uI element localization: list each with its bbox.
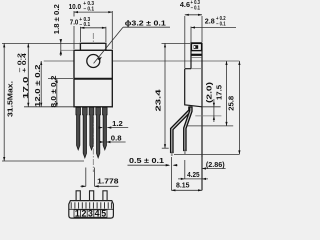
svg-text:8.0 ± 0.2: 8.0 ± 0.2 [49, 76, 58, 108]
svg-text:− 0.1: − 0.1 [216, 22, 226, 28]
svg-text:12.0 ± 0.2: 12.0 ± 0.2 [33, 65, 42, 108]
svg-text:3: 3 [88, 208, 93, 218]
svg-text:2: 2 [81, 208, 86, 218]
svg-text:0.8: 0.8 [111, 133, 122, 142]
svg-text:8.15: 8.15 [176, 181, 190, 190]
svg-text:25.8: 25.8 [226, 96, 235, 111]
svg-text:17.0: 17.0 [21, 77, 30, 99]
svg-text:1.778: 1.778 [97, 177, 118, 186]
svg-text:10.0: 10.0 [69, 2, 81, 11]
svg-text:7.0: 7.0 [70, 17, 79, 26]
svg-text:23.4: 23.4 [154, 88, 163, 111]
svg-text:4.25: 4.25 [187, 170, 200, 179]
svg-text:1: 1 [75, 208, 80, 218]
svg-text:31.5Max.: 31.5Max. [6, 81, 15, 117]
svg-text:5: 5 [101, 208, 106, 218]
svg-text:17.5: 17.5 [214, 85, 223, 100]
svg-text:− 0.1: − 0.1 [191, 5, 201, 11]
svg-text:(2.86): (2.86) [206, 160, 225, 169]
svg-text:1.2: 1.2 [112, 119, 123, 128]
svg-text:1.8 ± 0.2: 1.8 ± 0.2 [52, 4, 61, 34]
svg-text:− 0.1: − 0.1 [83, 7, 94, 13]
svg-text:ϕ3.2 ± 0.1: ϕ3.2 ± 0.1 [125, 18, 166, 27]
svg-text:− 0.2: − 0.2 [18, 53, 24, 73]
svg-text:(2.0): (2.0) [204, 81, 213, 103]
svg-text:2.8: 2.8 [205, 16, 215, 25]
svg-text:− 0.1: − 0.1 [79, 22, 90, 28]
svg-text:4: 4 [95, 208, 100, 218]
svg-text:0.5 ± 0.1: 0.5 ± 0.1 [129, 156, 164, 165]
svg-text:4.6: 4.6 [180, 0, 190, 9]
